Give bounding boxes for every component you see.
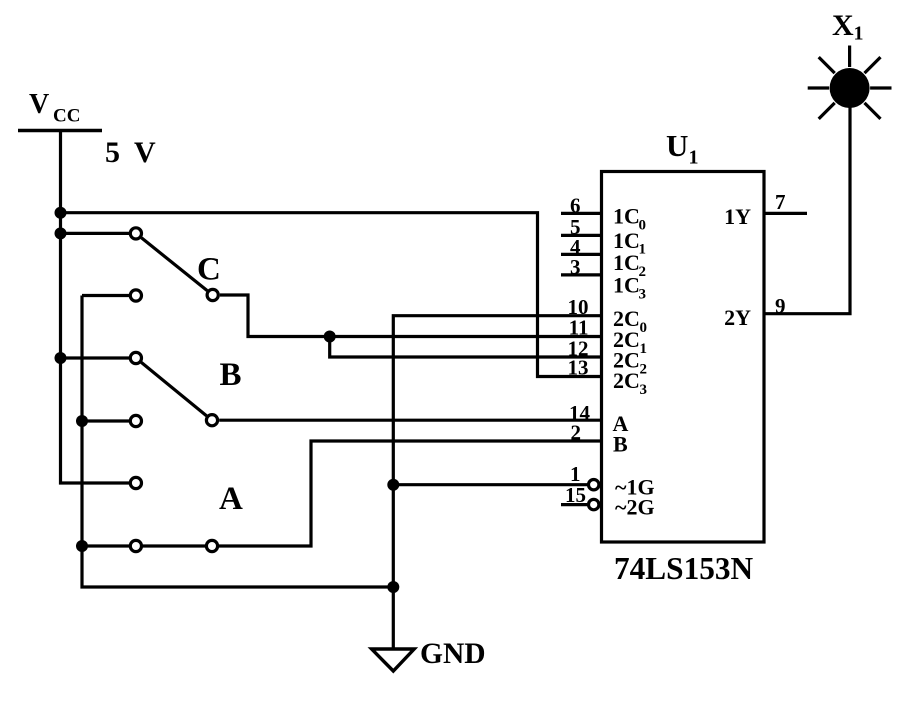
pin label 1C2 xyxy=(613,250,646,280)
wire ground rail to switch B bottom throw xyxy=(82,419,129,422)
svg-text:2Y: 2Y xyxy=(724,305,751,330)
pin label 1C1 xyxy=(613,228,646,258)
wire node A to pin 11 (2C1) xyxy=(330,335,601,338)
svg-text:2: 2 xyxy=(640,361,648,377)
svg-text:V: V xyxy=(134,136,156,169)
junction ground rail at y=421 xyxy=(76,415,88,427)
svg-text:6: 6 xyxy=(570,194,581,218)
svg-text:7: 7 xyxy=(775,190,786,214)
pin label 2C2 xyxy=(613,348,647,378)
svg-text:0: 0 xyxy=(640,320,648,336)
lamp reference designator X1 xyxy=(832,9,864,45)
pin 7 stub (1Y) xyxy=(764,212,807,215)
svg-text:5: 5 xyxy=(105,136,120,169)
pin 1 inversion bubble (~1G) xyxy=(589,480,599,490)
svg-text:1C: 1C xyxy=(613,250,640,275)
junction on VCC rail at y=212.7 xyxy=(55,207,67,219)
switch A (SPDT, arm down) xyxy=(130,477,243,551)
svg-text:X: X xyxy=(832,9,854,42)
wire VCC rail to switch B top throw xyxy=(61,356,130,359)
switch C (SPDT, arm up) xyxy=(130,228,221,301)
wire switch A common up to pin 2 (B) xyxy=(219,441,601,546)
wire switch C bottom throw to ground rail x=82 xyxy=(82,294,129,297)
power symbol VCC xyxy=(18,89,102,131)
pin label 2C0 xyxy=(613,306,647,336)
wire pin 9 (2Y) to lamp X1 xyxy=(764,107,850,314)
svg-text:3: 3 xyxy=(640,382,648,398)
svg-text:C: C xyxy=(197,252,221,288)
junction ground rail at y=546 xyxy=(76,540,88,552)
svg-text:15: 15 xyxy=(565,483,586,507)
svg-text:3: 3 xyxy=(639,286,647,302)
svg-text:A: A xyxy=(219,481,243,517)
pin label 2C3 xyxy=(613,368,647,398)
switch B (SPDT, arm up) xyxy=(130,352,241,426)
junction on VCC rail at y=233.4 xyxy=(55,227,67,239)
pin 3 stub (1C3) xyxy=(561,273,601,276)
wire node A drop to pin 12 (2C2) xyxy=(330,337,601,358)
svg-text:1: 1 xyxy=(689,147,699,169)
node A junction dot xyxy=(324,331,336,343)
svg-text:B: B xyxy=(220,357,242,393)
IC reference designator U1 xyxy=(666,128,699,169)
svg-text:13: 13 xyxy=(568,356,589,380)
svg-text:CC: CC xyxy=(53,106,80,127)
junction ground net bottom tee xyxy=(387,581,399,593)
pin label 2C1 xyxy=(613,327,647,357)
svg-text:1C: 1C xyxy=(613,273,640,298)
wire pin 10 (2C0) to ground net vertical x=393.3 xyxy=(393,316,601,649)
svg-text:GND: GND xyxy=(420,638,486,670)
svg-text:74LS153N: 74LS153N xyxy=(614,551,754,586)
lamp X1 xyxy=(808,46,892,119)
svg-text:B: B xyxy=(613,432,628,457)
pin 6 stub (1C0) xyxy=(561,212,601,215)
svg-text:3: 3 xyxy=(570,255,581,279)
pin 5 stub (1C1) xyxy=(561,234,601,237)
pin 15 inversion bubble xyxy=(589,499,599,509)
wire VCC rail to switch C top throw xyxy=(61,232,130,235)
svg-text:~2G: ~2G xyxy=(615,494,655,519)
svg-text:2: 2 xyxy=(571,421,582,445)
wire ground rail vertical x=82 down to bottom xyxy=(82,296,393,588)
svg-text:9: 9 xyxy=(775,294,786,318)
wire VCC vertical main rail xyxy=(61,131,130,484)
wire ground rail to switch A bottom throw xyxy=(82,544,129,547)
ground symbol GND xyxy=(372,638,486,671)
junction ground net at ~1G tap xyxy=(387,479,399,491)
junction on VCC rail at y=358 xyxy=(55,352,67,364)
wire switch C common to node A xyxy=(220,295,330,337)
wire switch B common to pin 14 (A) xyxy=(219,419,601,422)
svg-text:U: U xyxy=(666,128,688,163)
pin label 1C3 xyxy=(613,273,646,303)
pin label 1C0 xyxy=(613,204,646,234)
op IC U1 74LS153N body xyxy=(602,172,765,543)
svg-text:1C: 1C xyxy=(613,204,640,229)
value label 5 V xyxy=(105,136,156,169)
svg-text:V: V xyxy=(29,89,49,120)
svg-text:1: 1 xyxy=(854,23,864,45)
svg-text:1: 1 xyxy=(640,341,648,357)
svg-text:1Y: 1Y xyxy=(724,204,751,229)
pin 4 stub (1C2) xyxy=(561,253,601,256)
wire ground net to pin 1 (~1G) xyxy=(393,483,587,486)
svg-text:2C: 2C xyxy=(613,368,640,393)
pin 15 stub (~2G) xyxy=(561,503,587,506)
wire VCC to 2C3: node at top rail across to x=537.5 down to pin 13 xyxy=(61,213,602,377)
